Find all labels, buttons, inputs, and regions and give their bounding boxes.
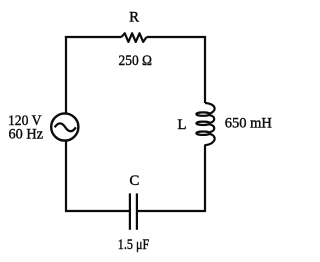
svg-text:250 Ω: 250 Ω bbox=[119, 53, 153, 69]
svg-text:1.5 μF: 1.5 μF bbox=[118, 237, 150, 253]
svg-text:60 Hz: 60 Hz bbox=[9, 126, 44, 142]
svg-text:650 mH: 650 mH bbox=[225, 115, 272, 131]
svg-text:L: L bbox=[177, 117, 186, 133]
svg-text:R: R bbox=[129, 10, 139, 26]
svg-text:C: C bbox=[129, 173, 139, 189]
